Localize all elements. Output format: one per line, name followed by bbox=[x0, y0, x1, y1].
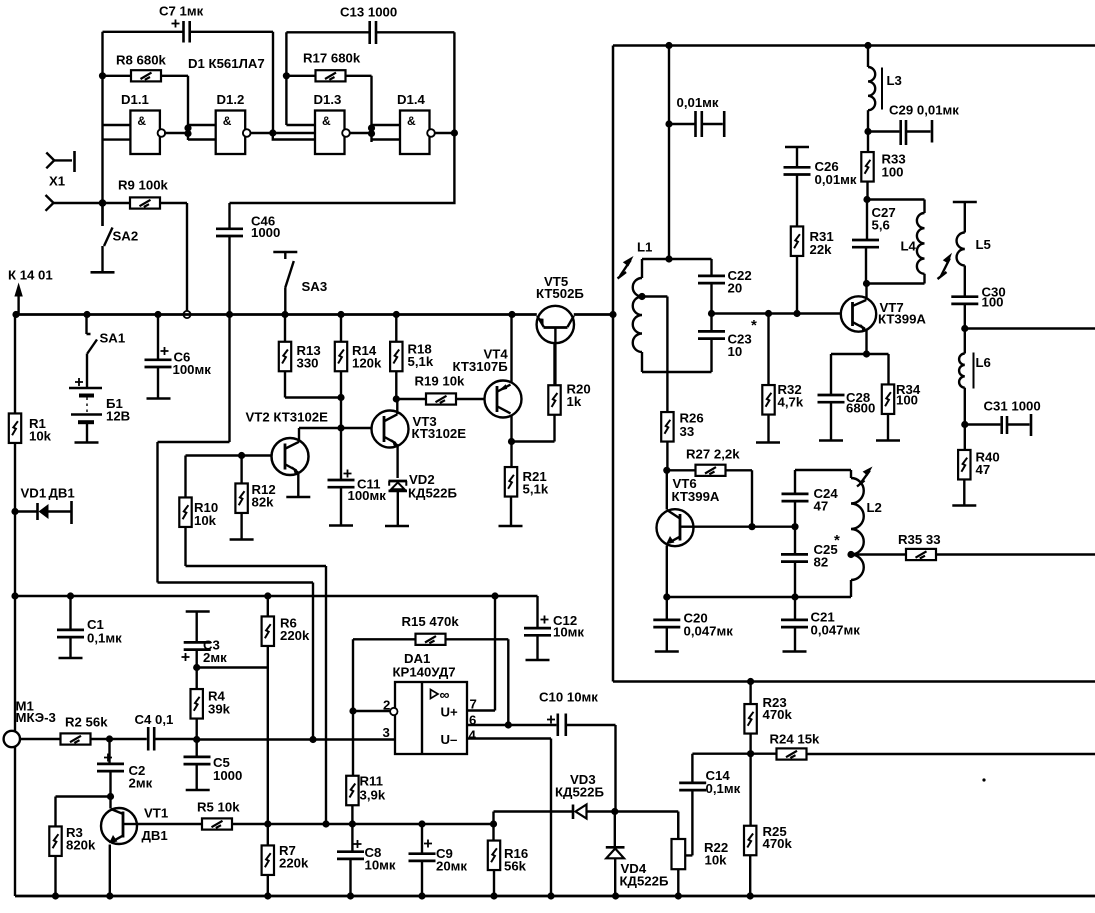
resistor R40 bbox=[952, 425, 976, 506]
svg-text:20: 20 bbox=[728, 281, 743, 296]
node R17 left bbox=[283, 72, 290, 79]
capacitor C23 bbox=[698, 314, 725, 373]
node R13/R14 bbox=[337, 394, 344, 401]
label C21 bbox=[811, 610, 861, 638]
resistor R35 bbox=[851, 549, 1095, 560]
label K 14 01 bbox=[8, 268, 53, 283]
resistor R31 bbox=[791, 226, 803, 313]
svg-text:4,7k: 4,7k bbox=[778, 395, 804, 410]
svg-text:2мк: 2мк bbox=[203, 650, 227, 665]
label R34 bbox=[896, 382, 921, 408]
svg-text:4: 4 bbox=[469, 728, 477, 743]
svg-text:С7 1мк: С7 1мк bbox=[159, 4, 204, 19]
wire C13/R17 left rail bbox=[286, 32, 315, 125]
gate D1.3 bbox=[315, 111, 350, 155]
node bottom R25 bbox=[747, 892, 754, 899]
node bus C46 bbox=[226, 311, 233, 318]
svg-text:3,9k: 3,9k bbox=[360, 788, 386, 803]
gate D1.4 bbox=[400, 111, 435, 155]
label C1 bbox=[87, 617, 122, 646]
resistor R22 bbox=[672, 812, 686, 897]
polarity + of C12 bbox=[541, 616, 549, 624]
node bus C6 bbox=[154, 311, 161, 318]
node VT4 emitter bbox=[508, 438, 515, 445]
label VD3 bbox=[555, 772, 604, 800]
svg-text:R19 10k: R19 10k bbox=[415, 374, 466, 389]
resistor R20 bbox=[548, 329, 560, 415]
label DA1 bbox=[393, 651, 456, 680]
capacitor C14 bbox=[679, 754, 750, 856]
wire IF output bbox=[965, 327, 1095, 329]
svg-text:R5 10k: R5 10k bbox=[197, 800, 240, 815]
svg-text:0,1мк: 0,1мк bbox=[87, 631, 122, 646]
node bottom rail R23 bbox=[747, 678, 754, 685]
wire D1.4 inputs bbox=[372, 125, 401, 140]
node bus2 R6 bbox=[264, 592, 271, 599]
capacitor C25 bbox=[781, 527, 808, 597]
resistor R4 bbox=[191, 668, 203, 740]
svg-text:L4: L4 bbox=[901, 239, 917, 254]
capacitor C26 bbox=[784, 147, 811, 227]
capacitor C10 bbox=[508, 714, 615, 812]
svg-text:R8 680k: R8 680k bbox=[116, 53, 167, 68]
node path A on mic line bbox=[309, 736, 316, 743]
transistor VT1 bbox=[101, 797, 137, 897]
svg-text:220k: 220k bbox=[279, 856, 309, 871]
wire net input vertical (C7/R8/D1.1 left rail) bbox=[101, 32, 103, 226]
svg-text:R2 56k: R2 56k bbox=[65, 715, 108, 730]
svg-text:*: * bbox=[751, 317, 757, 334]
connector X1 pin B bbox=[46, 195, 103, 211]
label C22 bbox=[728, 268, 752, 296]
svg-text:R35 33: R35 33 bbox=[898, 532, 941, 547]
svg-text:10k: 10k bbox=[705, 853, 728, 868]
capacitor C22 bbox=[669, 259, 725, 314]
svg-text:R24 15k: R24 15k bbox=[770, 732, 821, 747]
svg-text:820k: 820k bbox=[66, 838, 96, 853]
node R33/C27/L4 bbox=[863, 196, 870, 203]
transistor VT3 bbox=[372, 399, 409, 478]
resistor R10 bbox=[179, 456, 326, 825]
wire D1.3 output bbox=[350, 132, 372, 134]
svg-text:100: 100 bbox=[896, 393, 918, 408]
svg-text:100мк: 100мк bbox=[173, 362, 212, 377]
svg-text:33: 33 bbox=[680, 424, 695, 439]
capacitor C7 bbox=[103, 21, 274, 43]
capacitor C4 bbox=[110, 727, 197, 751]
node R18/R19/VT3 bbox=[393, 395, 400, 402]
wire VT6 emitter net bbox=[667, 596, 851, 598]
svg-text:L2: L2 bbox=[867, 500, 882, 515]
label L2 bbox=[867, 500, 882, 515]
node L3/C29/R33 bbox=[864, 128, 871, 135]
node D1.1 out tie bbox=[184, 124, 191, 137]
wire VT2 collector to VT3 base bbox=[299, 427, 372, 429]
label M1 bbox=[16, 699, 56, 726]
wire collector line bbox=[137, 823, 202, 825]
resistor R34 bbox=[876, 354, 900, 441]
label D1.4 bbox=[397, 92, 426, 107]
node VT6 base bbox=[663, 467, 670, 474]
label VT5 bbox=[536, 274, 584, 301]
node bus2 C1 bbox=[67, 592, 74, 599]
wire VT2 base bbox=[186, 454, 272, 456]
label VT4 bbox=[453, 347, 509, 375]
resistor R5 bbox=[202, 818, 494, 829]
wire VD3 branch bbox=[494, 812, 573, 825]
wire R9 to bus bbox=[186, 203, 188, 311]
node R31 tap bbox=[793, 310, 800, 317]
label C27 bbox=[872, 205, 896, 233]
svg-text:39k: 39k bbox=[208, 702, 231, 717]
label G1 bbox=[106, 396, 130, 424]
label R7 bbox=[279, 843, 309, 871]
node emitter/C20 bbox=[663, 593, 670, 600]
svg-text:SA3: SA3 bbox=[302, 279, 328, 294]
svg-text:5,1k: 5,1k bbox=[408, 354, 434, 369]
node C25/C21 bbox=[791, 593, 798, 600]
resistor R19 bbox=[396, 393, 485, 404]
wire emitter net bbox=[831, 353, 889, 355]
svg-text:КТ502Б: КТ502Б bbox=[536, 286, 584, 301]
label C20 bbox=[684, 611, 734, 639]
svg-text:С29 0,01мк: С29 0,01мк bbox=[889, 103, 959, 118]
wire L1 feed bbox=[668, 46, 670, 260]
transistor VT2 bbox=[272, 428, 311, 497]
label VD1 bbox=[21, 486, 75, 501]
node bus VT4 bbox=[508, 311, 515, 318]
label R21 bbox=[523, 469, 549, 497]
switch SA2 bbox=[91, 203, 115, 272]
gate D1.2 bbox=[216, 111, 251, 155]
label C12 bbox=[553, 613, 584, 640]
svg-text:L3: L3 bbox=[887, 73, 902, 88]
svg-text:10k: 10k bbox=[29, 429, 52, 444]
svg-text:330: 330 bbox=[297, 356, 319, 371]
node C9/R5 line bbox=[418, 820, 425, 827]
label C46 bbox=[251, 214, 280, 241]
svg-text:D1.4: D1.4 bbox=[397, 92, 426, 107]
svg-text:D1.1: D1.1 bbox=[121, 92, 149, 107]
label L3 bbox=[887, 73, 902, 88]
svg-text:D1.3: D1.3 bbox=[314, 92, 342, 107]
label R12 bbox=[252, 482, 276, 510]
svg-text:D1.2: D1.2 bbox=[217, 92, 245, 107]
capacitor C1 bbox=[57, 596, 84, 658]
label R6 bbox=[280, 616, 310, 644]
inductor L2 bbox=[851, 470, 864, 597]
wire main supply bus bbox=[15, 313, 614, 316]
svg-text:КД522Б: КД522Б bbox=[555, 785, 604, 800]
node K arrow bbox=[14, 283, 22, 315]
connector X1 pin A bbox=[46, 151, 74, 172]
node L1 top bbox=[665, 255, 672, 262]
label R8 bbox=[116, 53, 167, 68]
label D1.2 bbox=[217, 92, 245, 107]
node C7 junction bbox=[269, 129, 276, 136]
node bottom VT1 bbox=[106, 892, 113, 899]
label R27 bbox=[686, 447, 740, 462]
label R18 bbox=[408, 342, 434, 370]
inductor L4 bbox=[867, 200, 925, 284]
label VT1 bbox=[142, 806, 169, 844]
node bottom VD4 bbox=[612, 892, 619, 899]
svg-text:U+: U+ bbox=[441, 705, 459, 720]
node R4/C5/mic line bbox=[193, 736, 200, 743]
svg-text:1000: 1000 bbox=[251, 225, 280, 240]
resistor R7 bbox=[262, 845, 274, 896]
svg-text:0,047мк: 0,047мк bbox=[684, 624, 734, 639]
node R12 tap bbox=[238, 452, 245, 459]
label C29 bbox=[889, 103, 959, 118]
label VT7 bbox=[878, 300, 926, 327]
node C24/C25 bbox=[791, 523, 798, 530]
svg-text:1k: 1k bbox=[567, 394, 582, 409]
label C8 bbox=[365, 845, 396, 873]
resistor R16 bbox=[488, 824, 500, 896]
label R33 bbox=[882, 152, 906, 180]
node L6/C31/R40 bbox=[961, 421, 968, 428]
label SA1 bbox=[100, 331, 126, 346]
node bottom pin4 bbox=[547, 892, 554, 899]
label C11 bbox=[348, 477, 387, 504]
node bottom R3 bbox=[52, 892, 59, 899]
svg-text:С4 0,1: С4 0,1 bbox=[135, 712, 174, 727]
capacitor C3 bbox=[184, 612, 211, 668]
label C7 value bbox=[159, 4, 204, 19]
node bottom R16 bbox=[490, 892, 497, 899]
svg-text:D1 К561ЛА7: D1 К561ЛА7 bbox=[188, 56, 265, 71]
resistor R33 bbox=[861, 132, 873, 200]
svg-text:47: 47 bbox=[814, 499, 829, 514]
wire RF top rail bbox=[613, 44, 1095, 47]
polarity + of C3 bbox=[182, 653, 190, 661]
label R23 bbox=[763, 695, 793, 722]
wire C7 right leg bbox=[272, 32, 274, 133]
wire feedback to C46 bbox=[230, 133, 455, 203]
svg-text:R15 470k: R15 470k bbox=[402, 614, 460, 629]
svg-text:R27 2,2k: R27 2,2k bbox=[686, 447, 740, 462]
switch SA1 bbox=[87, 315, 98, 388]
label R19 bbox=[415, 374, 466, 389]
capacitor C24 bbox=[782, 470, 809, 527]
svg-text:L5: L5 bbox=[976, 237, 991, 252]
wire R8 to D1.2 input bbox=[187, 76, 189, 140]
svg-text:U–: U– bbox=[441, 732, 458, 747]
svg-text:ДВ1: ДВ1 bbox=[49, 486, 75, 501]
svg-text:VT2 КТ3102Е: VT2 КТ3102Е bbox=[246, 410, 329, 425]
capacitor C46 bbox=[216, 203, 243, 442]
label C24 bbox=[814, 486, 839, 514]
wire L1 bottom loop bbox=[642, 371, 712, 373]
svg-text:10мк: 10мк bbox=[553, 625, 584, 640]
label R20 bbox=[567, 382, 591, 410]
diode VD2 bbox=[385, 481, 409, 526]
label VT2 bbox=[246, 410, 329, 425]
capacitor C21 bbox=[781, 597, 808, 652]
label R3 bbox=[66, 825, 96, 853]
svg-text:0,01мк: 0,01мк bbox=[677, 95, 719, 110]
transistor VT6 bbox=[657, 470, 694, 597]
node path B on R5 line bbox=[322, 820, 329, 827]
inductor L6 bbox=[959, 329, 973, 425]
label VT3 bbox=[412, 414, 467, 441]
wire RF left rail bbox=[612, 46, 615, 682]
label R35 bbox=[898, 532, 941, 547]
wire L2 top bbox=[795, 469, 851, 471]
label SA3 bbox=[302, 279, 328, 294]
capacitor C2 bbox=[97, 739, 124, 797]
svg-text:ДВ1: ДВ1 bbox=[142, 828, 168, 843]
svg-text:КД522Б: КД522Б bbox=[620, 874, 669, 889]
trimmer arrow L5 bbox=[938, 253, 953, 279]
wire C13 right leg down bbox=[453, 32, 455, 133]
node R14/C11 bbox=[337, 424, 344, 431]
label R13 bbox=[297, 343, 321, 371]
wire D1.1 inputs bbox=[103, 125, 131, 140]
label C2 bbox=[129, 763, 153, 791]
label C4 bbox=[135, 712, 174, 727]
label R40 bbox=[976, 450, 1000, 478]
node C3/R6/R4 bbox=[193, 664, 200, 671]
label C23 bbox=[728, 317, 758, 359]
resistor R11 bbox=[346, 711, 358, 824]
label R2 bbox=[65, 715, 108, 730]
node bottom R7 bbox=[264, 892, 271, 899]
diode VD3 bbox=[573, 805, 678, 820]
label R11 bbox=[360, 774, 386, 803]
svg-text:R9 100k: R9 100k bbox=[118, 178, 169, 193]
label R31 bbox=[810, 229, 834, 257]
node bus2 left bbox=[11, 592, 18, 599]
svg-text:0,1мк: 0,1мк bbox=[706, 781, 741, 796]
label SA2 bbox=[113, 229, 139, 244]
node R15/R11/pin2 bbox=[349, 707, 356, 714]
svg-text:L1: L1 bbox=[637, 240, 652, 255]
node bus left bbox=[12, 311, 19, 318]
capacitor C30 bbox=[951, 297, 978, 329]
pin 6 of DA1 bbox=[467, 713, 508, 728]
gate D1.1 bbox=[130, 111, 165, 155]
svg-text:С10 10мк: С10 10мк bbox=[539, 690, 598, 705]
svg-text:КД522Б: КД522Б bbox=[408, 486, 457, 501]
label L6 bbox=[976, 355, 991, 370]
label R32 bbox=[778, 382, 804, 410]
svg-text:R17 680k: R17 680k bbox=[303, 51, 361, 66]
capacitor C5 bbox=[184, 740, 211, 791]
resistor R24 bbox=[751, 748, 1095, 759]
resistor R9 bbox=[103, 197, 188, 208]
label R1 bbox=[29, 416, 52, 444]
capacitor C6 bbox=[145, 315, 172, 399]
node D1.4 out bbox=[451, 129, 458, 136]
resistor R1 bbox=[9, 315, 21, 897]
pin 2 of DA1 bbox=[353, 698, 397, 716]
svg-text:10: 10 bbox=[728, 344, 743, 359]
label VD2 bbox=[408, 472, 457, 501]
node VT7 emitter bbox=[863, 350, 870, 357]
node bus R18 bbox=[393, 311, 400, 318]
label X1 bbox=[49, 174, 65, 189]
node R32 tap bbox=[765, 310, 772, 317]
label C31 bbox=[984, 399, 1041, 414]
trimmer arrow L2 bbox=[857, 467, 873, 487]
resistor R17 bbox=[286, 70, 371, 81]
node R27/collector bbox=[748, 523, 755, 530]
inductor L3 bbox=[868, 46, 882, 132]
node bus R14 bbox=[337, 311, 344, 318]
capacitor C28 bbox=[818, 354, 845, 441]
polarity + of C6 bbox=[161, 347, 169, 355]
wire VT6 collector net bbox=[694, 526, 796, 528]
battery G1 bbox=[69, 388, 102, 443]
svg-text:10k: 10k bbox=[194, 513, 217, 528]
diode VD4 bbox=[606, 812, 625, 897]
resistor R32 bbox=[756, 314, 780, 443]
svg-text:∞: ∞ bbox=[440, 687, 450, 703]
label C6 bbox=[173, 350, 212, 378]
resistor R27 bbox=[667, 465, 752, 527]
capacitor C31 bbox=[965, 414, 1031, 436]
node bottom R22 bbox=[675, 892, 682, 899]
node bus2 pin7 bbox=[491, 592, 498, 599]
svg-text:С13 1000: С13 1000 bbox=[340, 5, 397, 20]
wire R17 to D1.4 tie bbox=[370, 76, 372, 142]
node R2/C2 bbox=[106, 735, 113, 742]
pin 7 of DA1 bbox=[467, 596, 495, 712]
svg-text:120k: 120k bbox=[352, 356, 382, 371]
node L2 tap bbox=[847, 551, 854, 558]
inductor L5 bbox=[953, 202, 977, 296]
svg-text:2мк: 2мк bbox=[129, 776, 153, 791]
node bottom C9 bbox=[418, 892, 425, 899]
wire path A from bus bbox=[158, 442, 314, 740]
stray mark bbox=[982, 778, 985, 781]
node blocking cap bbox=[665, 120, 672, 127]
pin 3 of DA1 bbox=[383, 725, 390, 740]
svg-text:470k: 470k bbox=[763, 707, 793, 722]
node VT1 base bbox=[107, 793, 114, 800]
node D1.3 out tie bbox=[368, 124, 375, 137]
wire mic line to DA1 bbox=[197, 738, 395, 740]
svg-text:0,047мк: 0,047мк bbox=[811, 623, 861, 638]
label R22 bbox=[704, 840, 728, 868]
label R26 bbox=[680, 411, 704, 440]
capacitor 0,01mk bbox=[669, 111, 724, 137]
microphone M1 bbox=[4, 731, 61, 747]
polarity + of C10 bbox=[547, 716, 555, 724]
node C22/C23 bbox=[708, 310, 715, 317]
node R11/R5 line bbox=[349, 820, 356, 827]
svg-text:КТ399А: КТ399А bbox=[878, 312, 926, 327]
svg-text:R11: R11 bbox=[360, 774, 383, 789]
label L5 bbox=[976, 237, 991, 252]
node L1 tap bbox=[638, 293, 645, 300]
label C10 bbox=[539, 690, 598, 705]
transistor VT4 bbox=[485, 315, 522, 442]
node bus SA1 bbox=[83, 311, 90, 318]
node R8 left bbox=[99, 72, 106, 79]
svg-text:82k: 82k bbox=[252, 495, 275, 510]
capacitor C8 bbox=[337, 824, 364, 896]
polarity + of C8 bbox=[354, 840, 362, 848]
wire C3 to R6 bbox=[197, 666, 268, 668]
label C14 bbox=[706, 768, 741, 796]
resistor R23 bbox=[744, 682, 756, 754]
label R24 bbox=[770, 732, 821, 747]
node rail L3 branch bbox=[864, 42, 871, 49]
label R15 bbox=[402, 614, 460, 629]
